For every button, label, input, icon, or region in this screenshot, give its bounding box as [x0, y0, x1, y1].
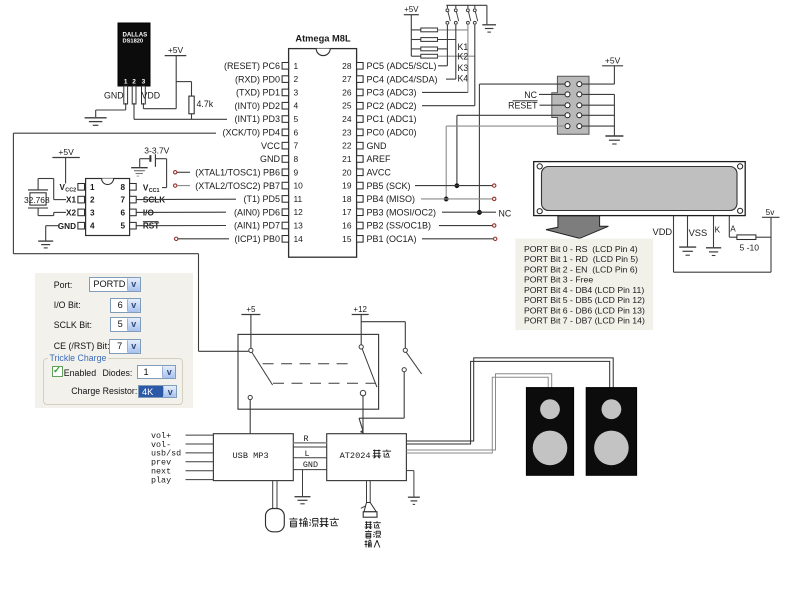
resistor R2 pull-up	[421, 28, 438, 32]
label Charge Resistor	[71, 386, 137, 396]
svg-text:K: K	[715, 226, 721, 235]
wire +5 stem	[250, 315, 252, 349]
svg-text:PB2 (SS/OC1B): PB2 (SS/OC1B)	[367, 221, 432, 231]
wire USB MP3 to IR receiver	[272, 481, 274, 509]
svg-text:4: 4	[90, 222, 95, 231]
wire switch top rail	[446, 4, 487, 6]
IC U1 pin 17 (PB3 (MOSI/OC2))	[357, 209, 364, 216]
svg-text:2: 2	[294, 74, 299, 84]
wire header SCK (row4) to PB5	[457, 114, 565, 116]
switch K1	[446, 5, 448, 8]
svg-text:NC: NC	[524, 90, 537, 100]
outer switch S2 blade	[406, 352, 421, 374]
ground (K)	[706, 247, 721, 249]
svg-text:20: 20	[342, 167, 352, 177]
wire K3 to PC3	[422, 91, 468, 93]
ground (battery)	[131, 167, 148, 169]
svg-text:24: 24	[342, 114, 352, 124]
svg-text:+12: +12	[353, 305, 367, 314]
svg-text:23: 23	[342, 127, 352, 137]
block USB MP3 body	[213, 434, 293, 481]
svg-text:PC3 (ADC3): PC3 (ADC3)	[367, 88, 417, 98]
svg-text:5 -10: 5 -10	[740, 243, 760, 253]
IC U1 pin 15 (PB1 (OC1A))	[357, 236, 364, 243]
power +5V (key switches)	[404, 14, 419, 16]
connector J1 pad row 3 right	[577, 103, 582, 108]
resistor R5 pull-up	[421, 54, 438, 58]
svg-text:8: 8	[120, 183, 125, 192]
svg-text:GND: GND	[367, 141, 388, 151]
wire R pair	[293, 442, 326, 444]
wire NC pad row2	[539, 93, 565, 95]
svg-text:RESET: RESET	[508, 101, 538, 111]
ground (DS1302)	[38, 240, 53, 242]
connector J1 pad row 5 right	[577, 124, 582, 129]
wire +5V to resistor R4	[411, 48, 421, 50]
svg-text:GND: GND	[58, 222, 76, 231]
IC U1 pin 26 (PC3 (ADC3))	[357, 89, 364, 96]
svg-text:PORT Bit 4 - DB4 (LCD Pin 11): PORT Bit 4 - DB4 (LCD Pin 11)	[524, 285, 644, 295]
svg-text:K4: K4	[458, 73, 469, 83]
wire U2 RST to (AIN1) PD7	[136, 225, 226, 227]
svg-text:(AIN1) PD7: (AIN1) PD7	[234, 221, 280, 231]
sensor U3 pin 3	[142, 86, 146, 104]
IC U1 pin 25 (PC2 (ADC2))	[357, 102, 364, 109]
svg-text:PORT Bit 3 - Free: PORT Bit 3 - Free	[524, 275, 593, 285]
svg-text:21: 21	[342, 154, 352, 164]
speaker SP2 woofer	[594, 431, 629, 466]
dashed link lower	[273, 382, 376, 384]
switch S1b blade	[362, 349, 377, 387]
wire AT2024 to right ground	[406, 470, 414, 472]
svg-text:PORT Bit 7 - DB7 (LCD Pin 14): PORT Bit 7 - DB7 (LCD Pin 14)	[524, 316, 645, 326]
svg-text:(TXD) PD1: (TXD) PD1	[236, 88, 280, 98]
LCD mounting hole bottom-left	[537, 209, 542, 214]
IC U1 pin 7 (VCC)	[282, 142, 289, 149]
wire K2 to PC4	[446, 78, 456, 80]
svg-text:8: 8	[294, 154, 299, 164]
svg-text:(INT1) PD3: (INT1) PD3	[234, 114, 280, 124]
svg-text:VDD: VDD	[142, 90, 161, 100]
ground (ISP header)	[605, 135, 623, 137]
label Port	[54, 280, 73, 290]
wire test point to PB0	[178, 238, 229, 240]
resistor R1 4.7k	[189, 96, 194, 114]
wire header right pad	[582, 125, 615, 127]
svg-text:PC1 (ADC1): PC1 (ADC1)	[367, 114, 417, 124]
IC U2 pin 7	[130, 196, 137, 203]
crystal Y1 32.768kHz	[28, 189, 48, 191]
svg-text:1: 1	[294, 61, 299, 71]
wire speaker pair left channel	[406, 374, 551, 450]
IC U2 DS1302 body	[86, 179, 130, 236]
test point (PB1)	[494, 237, 497, 240]
speaker SP1 body	[526, 388, 573, 476]
switch S1b throw	[360, 390, 365, 395]
speaker SP2 tweeter	[602, 399, 622, 419]
wire S1b throw to AT2024	[362, 396, 364, 434]
switch S1a pole	[249, 348, 253, 352]
label Enabled	[64, 368, 96, 378]
wire GND	[293, 469, 326, 471]
resistor R4 pull-up	[421, 47, 438, 51]
speaker SP1 tweeter	[540, 399, 560, 419]
wire PB3 to NC	[442, 211, 496, 213]
svg-text:CC1: CC1	[149, 188, 160, 194]
wire resistor R4 output	[438, 48, 448, 50]
svg-text:14: 14	[294, 234, 304, 244]
wire PB4 to test point	[421, 198, 493, 200]
dialog DS1302 config panel	[35, 273, 194, 408]
test point (PB0/ICP1)	[175, 237, 178, 240]
block AT2024 amplifier body	[327, 434, 407, 481]
svg-text:+5V: +5V	[58, 147, 74, 157]
connector J1 pad row 2 left	[565, 92, 570, 97]
connector J1 pad row 4 right	[577, 113, 582, 118]
wire header MISO (row5) to PB4	[446, 125, 565, 127]
wire DS1820 pin3 to +5V	[142, 103, 144, 109]
IC U1 pin 14 ((ICP1) PB0)	[282, 236, 289, 243]
IC U1 pin 8 (GND)	[282, 156, 289, 163]
svg-text:7: 7	[294, 141, 299, 151]
wire (XCK/T0) PD4 net routing	[13, 132, 216, 134]
ground (VSS)	[679, 246, 696, 248]
svg-text:11: 11	[294, 194, 303, 204]
svg-text:NC: NC	[499, 209, 512, 219]
svg-text:Atmega M8L: Atmega M8L	[295, 34, 351, 44]
svg-text:6: 6	[120, 208, 125, 217]
svg-text:(XCK/T0) PD4: (XCK/T0) PD4	[222, 128, 280, 138]
svg-text:PC4 (ADC4/SDA): PC4 (ADC4/SDA)	[367, 74, 438, 84]
svg-text:PORT Bit 5 - DB5 (LCD Pin 12): PORT Bit 5 - DB5 (LCD Pin 12)	[524, 295, 645, 305]
label qita yinyuan shuru (CJK)	[365, 521, 373, 529]
wire GND drop	[302, 470, 304, 497]
test point (PB4)	[493, 197, 496, 200]
wire PB5 to test point	[415, 185, 493, 187]
svg-text:16: 16	[342, 221, 352, 231]
wire control usb/sd	[186, 452, 214, 454]
sensor U3 pin 1	[124, 86, 128, 104]
wire +5V to header pin 2	[613, 66, 615, 84]
svg-text:(ICP1) PB0: (ICP1) PB0	[234, 234, 280, 244]
IC U1 pin 11 ((T1) PD5)	[282, 196, 289, 203]
wire RESET pad row3	[540, 104, 565, 106]
wire S2 throw to AT2024 power arrow	[403, 372, 405, 418]
wire +5V to resistor R2	[411, 29, 421, 31]
wire R1 to PD3 net	[191, 114, 193, 120]
power +5V (DS1820)	[165, 55, 187, 57]
wire U2 SCLK to (T1) PD5	[136, 198, 236, 200]
svg-text:PORT Bit 1 - RD (LCD Pin 5): PORT Bit 1 - RD (LCD Pin 5)	[524, 254, 638, 264]
wire header right pad	[582, 114, 615, 116]
power +12 (relay)	[352, 314, 369, 316]
svg-text:(XTAL1/TOSC1) PB6: (XTAL1/TOSC1) PB6	[195, 167, 280, 177]
wire header MOSI (row1) to PB3	[479, 83, 565, 85]
wire AT2024 to aux plug	[366, 481, 368, 504]
wire battery minus to ground	[140, 158, 150, 160]
svg-text:play: play	[151, 475, 171, 485]
combo Diodes 1	[137, 365, 176, 379]
wire K1 to PC5	[438, 65, 447, 67]
IC U2 pin 8	[130, 184, 137, 191]
svg-text:+5V: +5V	[605, 55, 621, 65]
wire +5V to VCC2	[65, 158, 67, 184]
svg-text:6: 6	[294, 127, 299, 137]
svg-text:PORT Bit 2 - EN (LCD Pin 6): PORT Bit 2 - EN (LCD Pin 6)	[524, 264, 638, 274]
svg-text:PC2 (ADC2): PC2 (ADC2)	[367, 101, 417, 111]
svg-text:K2: K2	[458, 51, 469, 61]
svg-text:3: 3	[90, 208, 95, 217]
wire battery plus to VCC1	[156, 158, 167, 160]
label SCLK Bit	[54, 320, 92, 330]
power +5V (ISP header)	[602, 65, 623, 67]
label CE (/RST) Bit	[54, 341, 110, 351]
label Trickle Charge	[48, 353, 109, 363]
svg-text:AREF: AREF	[367, 154, 392, 164]
wire test point to PB6	[177, 171, 190, 173]
connector J1 pad row 5 left	[565, 124, 570, 129]
wire resistor R3 output	[438, 39, 456, 41]
wire crystal to X1	[37, 179, 39, 190]
wire header right pad	[582, 104, 615, 106]
svg-text:(XTAL2/TOSC2) PB7: (XTAL2/TOSC2) PB7	[195, 181, 280, 191]
svg-text:PB1 (OC1A): PB1 (OC1A)	[367, 234, 417, 244]
LCD mounting hole bottom-right	[738, 208, 743, 213]
svg-text:3: 3	[294, 87, 299, 97]
wire DS1820 pin2 to (INT1) PD3	[133, 103, 135, 119]
svg-text:2: 2	[90, 196, 95, 205]
aux plug	[361, 506, 366, 509]
wire control vol-	[186, 443, 214, 445]
IC U1 pin 6 ((XCK/T0) PD4)	[282, 129, 289, 136]
IC U1 pin 5 ((INT1) PD3)	[282, 116, 289, 123]
combo I/O Bit 6	[110, 298, 141, 314]
svg-text:12: 12	[294, 207, 304, 217]
svg-text:3: 3	[142, 79, 146, 86]
wire header ground rail	[613, 94, 615, 135]
connector J1 pad row 1 left	[565, 82, 570, 87]
outer switch S2 throw	[402, 368, 406, 372]
sensor U3 pin 2	[132, 86, 136, 104]
svg-text:VSS: VSS	[689, 228, 708, 238]
junction PB3/MOSI	[477, 210, 482, 215]
svg-text:32.768: 32.768	[24, 195, 50, 205]
IC U1 pin 4 ((INT0) PD2)	[282, 102, 289, 109]
LCD mounting hole top-right	[738, 164, 743, 169]
svg-text:PC0 (ADC0): PC0 (ADC0)	[367, 128, 417, 138]
svg-text:GND: GND	[104, 91, 124, 101]
wire LCD K to ground	[713, 216, 715, 248]
junction PB5/SCK	[455, 184, 459, 188]
label Diodes	[103, 368, 133, 378]
wire +5V to resistor R5	[411, 55, 421, 57]
svg-text:27: 27	[342, 74, 352, 84]
wire speaker pair right channel	[406, 358, 613, 441]
power 5v (LCD backlight)	[762, 216, 780, 218]
IC U1 pin 24 (PC1 (ADC1))	[357, 116, 364, 123]
wire S1a throw to USB MP3	[249, 400, 251, 434]
svg-text:18: 18	[342, 194, 352, 204]
svg-text:19: 19	[342, 181, 352, 191]
wire K4 to PC2	[422, 105, 475, 107]
svg-text:AT2024: AT2024	[340, 451, 371, 461]
svg-text:(RESET) PC6: (RESET) PC6	[224, 61, 280, 71]
speaker SP1 woofer	[533, 431, 568, 466]
relay box S1 body	[238, 334, 379, 409]
resistor R6 5-10 ohm	[737, 235, 756, 240]
svg-text:PORT Bit 0 - RS (LCD Pin 4): PORT Bit 0 - RS (LCD Pin 4)	[524, 244, 638, 254]
power +5V (DS1302)	[52, 157, 79, 159]
IC U2 pin 2	[78, 196, 85, 203]
power +5 (relay)	[241, 314, 260, 316]
IR receiver module	[266, 509, 285, 532]
junction PB4/MISO	[444, 197, 448, 201]
test point (PB5)	[493, 184, 496, 187]
label hongwai jieshoutou (CJK)	[289, 518, 297, 527]
svg-text:X1: X1	[66, 196, 76, 205]
connector J1 pad row 1 right	[577, 82, 582, 87]
wire +12 branch to outer switch	[361, 321, 405, 323]
svg-text:7: 7	[120, 196, 125, 205]
svg-text:2: 2	[132, 79, 136, 86]
svg-text:22: 22	[342, 141, 352, 151]
combo Port PORTD	[89, 277, 140, 293]
ground (AT2024)	[408, 496, 420, 498]
combo Charge Resistor 4K	[138, 385, 177, 398]
svg-text:DALLAS: DALLAS	[123, 31, 148, 38]
IC U1 pin 10 ((XTAL2/TOSC2) PB7)	[282, 182, 289, 189]
svg-text:PORT Bit 6 - DB6 (LCD Pin 13): PORT Bit 6 - DB6 (LCD Pin 13)	[524, 305, 645, 315]
IC U1 pin 19 (PB5 (SCK))	[357, 182, 364, 189]
label AT2024 gongfang (CJK)	[373, 450, 382, 459]
speaker SP2 body	[586, 388, 636, 476]
IC U2 pin 4	[78, 222, 85, 229]
svg-text:PB5 (SCK): PB5 (SCK)	[367, 181, 411, 191]
checkbox Enabled	[52, 366, 63, 377]
wire control vol+	[186, 434, 214, 436]
wire U2 GND to ground	[46, 225, 60, 227]
resistor R3 pull-up	[421, 38, 438, 42]
svg-text:13: 13	[294, 221, 304, 231]
switch K4	[474, 5, 476, 8]
svg-text:CC2: CC2	[65, 187, 76, 193]
IC U1 pin 12 ((AIN0) PD6)	[282, 209, 289, 216]
svg-text:5: 5	[120, 222, 125, 231]
wire +12 stem	[360, 315, 362, 345]
svg-text:PC5 (ADC5/SCL): PC5 (ADC5/SCL)	[367, 61, 437, 71]
IC U1 pin 20 (AVCC)	[357, 169, 364, 176]
svg-text:(AIN0) PD6: (AIN0) PD6	[234, 207, 280, 217]
svg-text:1: 1	[124, 79, 128, 86]
wire control play	[186, 479, 214, 481]
svg-text:AVCC: AVCC	[367, 167, 392, 177]
wire U2 I/O to (AIN0) PD6	[136, 211, 226, 213]
test point (PB6/XTAL1)	[174, 171, 177, 174]
IC U2 pin 6	[130, 209, 137, 216]
sensor U3 DALLAS DS1820 body	[118, 23, 150, 86]
IC U1 pin 16 (PB2 (SS/OC1B))	[357, 222, 364, 229]
LCD module LCD1 outer	[534, 162, 746, 216]
svg-text:25: 25	[342, 101, 352, 111]
wire control prev	[186, 461, 214, 463]
wire LCD A to resistor	[728, 216, 730, 238]
svg-text:VDD: VDD	[653, 227, 673, 237]
wire +5V stem to pull-up resistors	[410, 15, 412, 57]
wire PB1 to test point	[422, 238, 494, 240]
wire +5V to resistor R3	[411, 39, 421, 41]
IC U2 pin 1	[78, 184, 85, 191]
svg-text:26: 26	[342, 87, 352, 97]
IC U1 pin 18 (PB4 (MISO))	[357, 196, 364, 203]
svg-text:GND: GND	[303, 460, 318, 470]
svg-text:28: 28	[342, 61, 352, 71]
svg-text:GND: GND	[260, 154, 281, 164]
svg-text:4: 4	[294, 101, 299, 111]
IC U1 pin 27 (PC4 (ADC4/SDA))	[357, 76, 364, 83]
svg-text:5v: 5v	[766, 208, 776, 217]
LCD module LCD1 glass	[542, 167, 738, 211]
wire header right pad	[582, 83, 615, 85]
svg-text:10: 10	[294, 181, 304, 191]
IC U1 pin 9 ((XTAL1/TOSC1) PB6)	[282, 169, 289, 176]
combo CE Bit 7	[109, 339, 141, 355]
wire resistor R5 output	[438, 55, 475, 57]
svg-text:(INT0) PD2: (INT0) PD2	[234, 101, 280, 111]
svg-text:5: 5	[294, 114, 299, 124]
connector J1 ISP header body	[552, 76, 589, 134]
svg-text:4.7k: 4.7k	[197, 99, 214, 109]
svg-text:PB4 (MISO): PB4 (MISO)	[367, 194, 416, 204]
ground (key switches)	[486, 5, 488, 24]
wire crystal to X2	[37, 208, 39, 216]
connector J1 pad row 4 left	[565, 113, 570, 118]
svg-text:+5V: +5V	[404, 5, 419, 14]
wire control next	[186, 470, 214, 472]
ground (audio GND)	[295, 496, 311, 498]
port list background	[515, 239, 653, 331]
svg-text:USB MP3: USB MP3	[233, 451, 269, 461]
svg-text:K3: K3	[458, 63, 469, 73]
IC U1 pin 23 (PC0 (ADC0))	[357, 129, 364, 136]
label I/O Bit	[54, 300, 81, 310]
IC U1 pin 2 ((RXD) PD0)	[282, 76, 289, 83]
wire test point to PB7	[177, 185, 190, 187]
wire PB2 to test point	[439, 225, 493, 227]
test point (PB2)	[493, 224, 496, 227]
svg-text:(RXD) PD0: (RXD) PD0	[235, 74, 280, 84]
svg-text:+5: +5	[246, 305, 256, 314]
svg-text:DS1820: DS1820	[123, 38, 144, 44]
svg-text:PB3 (MOSI/OC2): PB3 (MOSI/OC2)	[367, 207, 437, 217]
IC U1 pin 3 ((TXD) PD1)	[282, 89, 289, 96]
groupbox Trickle Charge	[43, 358, 183, 406]
test point (PB7/XTAL2)	[174, 184, 177, 187]
ground (DS1820)	[85, 117, 107, 119]
svg-text:A: A	[730, 225, 736, 234]
outer switch S2 pole	[403, 348, 407, 352]
IC U1 pin 22 (GND)	[357, 142, 364, 149]
wire DS1820 pin1 to ground	[125, 103, 127, 110]
svg-text:15: 15	[342, 234, 352, 244]
svg-text:9: 9	[294, 167, 299, 177]
IC U1 pin 13 ((AIN1) PD7)	[282, 222, 289, 229]
svg-text:1: 1	[90, 183, 95, 192]
LCD mounting hole top-left	[537, 164, 542, 169]
wire L	[293, 457, 326, 459]
connector J1 pad row 3 left	[565, 103, 570, 108]
IC U2 pin 5	[130, 222, 137, 229]
arrow LCD to port list	[546, 216, 608, 239]
